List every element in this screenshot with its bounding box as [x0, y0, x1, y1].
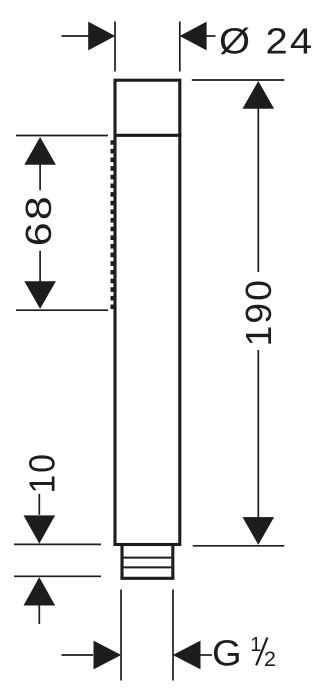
- 190 ext line top: [192, 79, 284, 81]
- svg-text:1: 1: [250, 634, 261, 656]
- dia24 ext line left: [114, 22, 116, 72]
- nozzle bumps strip: [111, 140, 114, 310]
- 190 ext line bottom: [193, 545, 284, 547]
- 10 dim stub lower: [38, 605, 40, 624]
- 190 dim line upper: [257, 108, 259, 272]
- label half: slash: [256, 638, 267, 666]
- 10 ext line bottom: [14, 575, 101, 577]
- connector bottom: [120, 577, 174, 580]
- svg-text:68: 68: [19, 194, 59, 246]
- 190 arrow down: [243, 517, 275, 545]
- dia24 tail left: [62, 35, 89, 37]
- 190 arrow up: [243, 81, 275, 109]
- dia24 ext line right: [179, 22, 181, 72]
- svg-text:G: G: [212, 633, 242, 674]
- svg-text:Ø 24: Ø 24: [219, 21, 314, 62]
- svg-text:190: 190: [238, 278, 278, 347]
- 10 ext line top: [14, 543, 101, 545]
- thread ridge 2: [124, 566, 172, 568]
- G half ext line left: [120, 590, 122, 681]
- connector right edge: [171, 546, 174, 578]
- 10 dim stub upper: [38, 494, 40, 515]
- shower body outline: [115, 80, 180, 544]
- G half tail right: [200, 654, 212, 656]
- 68 dim line upper: [39, 164, 41, 191]
- dia24 tail right: [207, 35, 216, 37]
- head/handle divider: [114, 134, 182, 137]
- 10 arrow down: [24, 515, 56, 543]
- 190 dim line lower: [257, 350, 259, 518]
- dia24 arrow left: [88, 22, 115, 51]
- svg-text:10: 10: [22, 452, 62, 493]
- 68 arrow up: [24, 137, 56, 165]
- thread ridge 1: [124, 557, 172, 559]
- connector left edge: [120, 546, 123, 578]
- G half ext line right: [172, 590, 174, 681]
- 68 ext line top: [16, 135, 108, 137]
- svg-text:2: 2: [264, 647, 276, 671]
- G half arrow left: [94, 641, 122, 670]
- dia24 arrow right: [180, 22, 207, 51]
- G half tail left: [62, 654, 94, 656]
- 68 ext line bottom: [16, 309, 108, 311]
- 68 arrow down: [24, 281, 56, 309]
- 68 dim line lower: [39, 251, 41, 282]
- 10 arrow up: [24, 577, 56, 605]
- G half arrow right: [173, 641, 201, 670]
